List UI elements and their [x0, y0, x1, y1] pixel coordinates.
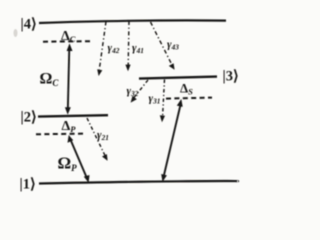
decay arrow gamma_21 (dash-dot) [87, 118, 108, 161]
level |2> line [38, 115, 108, 116]
dashed detuning line below |2> [36, 133, 85, 136]
decay arrow gamma_43 (dash-dot) [151, 22, 175, 70]
dashed detuning line below |3> [166, 98, 212, 99]
level |1> line [39, 181, 238, 183]
decay arrow gamma_31 (dash-dot) [160, 80, 165, 123]
svg-text:|1⟩: |1⟩ [20, 177, 36, 193]
svg-text:|2⟩: |2⟩ [21, 110, 37, 126]
decay arrow gamma_32 (dash-dot) [131, 80, 148, 103]
svg-text:|4⟩: |4⟩ [21, 17, 37, 33]
dashed detuning line below |4> [43, 40, 90, 43]
coupling arrow Omega_C (double-headed vertical) [65, 43, 73, 114]
svg-text:|3⟩: |3⟩ [223, 69, 239, 85]
signal arrow |1>-|3> (double-headed slanted) [161, 99, 183, 182]
level |3> line [139, 77, 217, 79]
level |4> line [39, 20, 226, 23]
probe arrow Omega_P (double-headed slanted) [68, 135, 90, 183]
decay arrow gamma_42 (dash-dot) [97, 22, 106, 77]
decay arrow gamma_41 (dash-dot) [125, 21, 130, 71]
